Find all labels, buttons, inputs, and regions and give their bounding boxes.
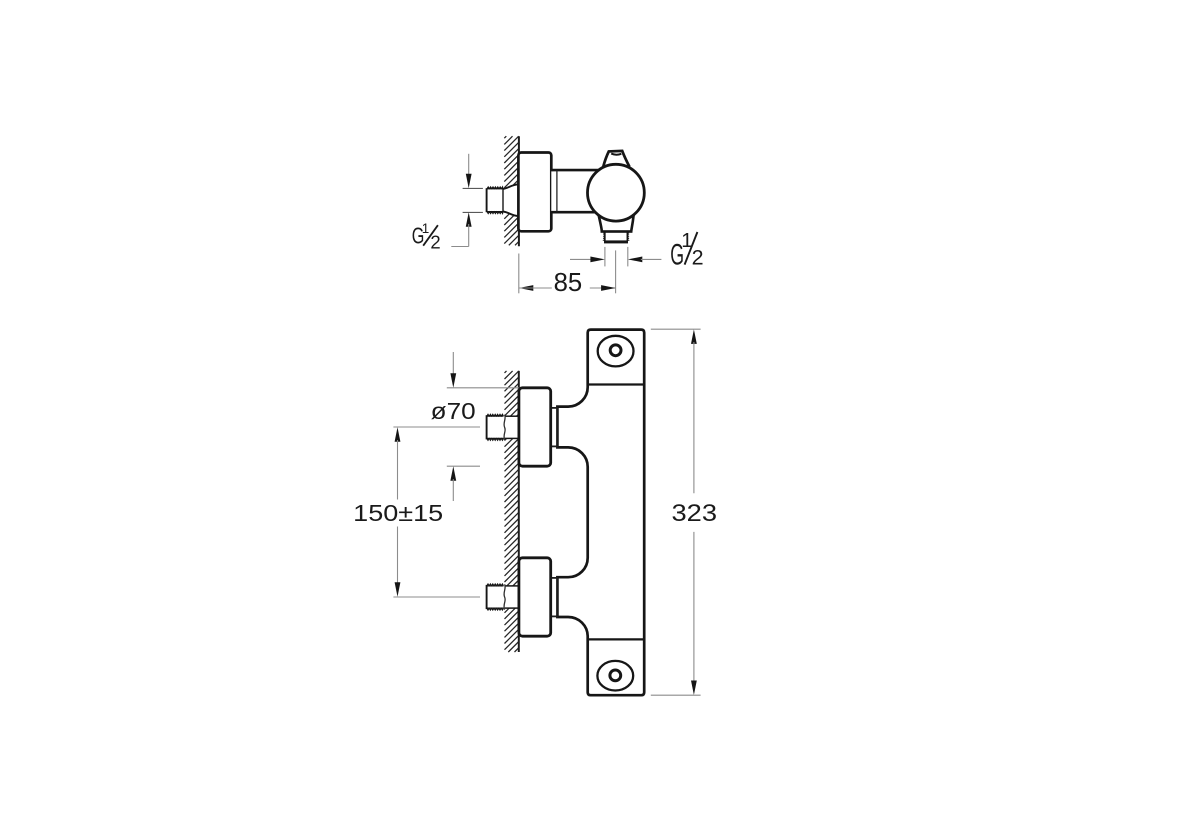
label G1/2 right xyxy=(670,229,703,272)
threaded nipple (upper) with break line xyxy=(487,414,519,440)
svg-text:150±15: 150±15 xyxy=(353,500,443,526)
wall face line (bottom view) xyxy=(518,371,520,652)
dim: G1/2 right (outlet) xyxy=(570,247,661,267)
svg-text:2: 2 xyxy=(692,245,704,269)
outlet taper below valve xyxy=(599,215,634,231)
svg-text:ø70: ø70 xyxy=(431,398,476,424)
outlet nipple G1/2 xyxy=(604,232,629,244)
dim: dia 70 xyxy=(431,352,519,501)
dim: 85 xyxy=(519,250,616,296)
valve body (circle) xyxy=(588,164,645,221)
label G1/2 left xyxy=(412,221,441,253)
lower mounting hole xyxy=(597,661,633,691)
dim: 323 xyxy=(651,329,717,695)
dim: 150 +/- 15 xyxy=(353,427,480,597)
plate joint lines xyxy=(588,383,644,385)
wall hatch (top view) xyxy=(504,136,519,245)
inlet cone through wall xyxy=(503,184,519,216)
horizontal pipe xyxy=(551,170,605,212)
knob / cap on valve top xyxy=(603,151,629,167)
thermostatic bar body outline xyxy=(557,330,644,696)
wall flange (side view) xyxy=(518,153,551,232)
neck ring (lower) xyxy=(548,578,557,617)
svg-text:85: 85 xyxy=(554,267,583,297)
svg-text:323: 323 xyxy=(672,500,718,527)
threaded nipple (lower) with break line xyxy=(487,584,519,610)
upper mounting hole xyxy=(598,336,634,367)
threaded inlet nipple G1/2 (side view) xyxy=(487,187,504,214)
lower escutcheon xyxy=(519,558,551,636)
dim: G1/2 left (inlet) xyxy=(451,154,483,247)
upper escutcheon xyxy=(519,388,551,466)
svg-text:1: 1 xyxy=(422,221,430,236)
wall face line (top view) xyxy=(518,136,520,246)
neck ring (upper) xyxy=(548,408,557,447)
wall hatch (front/side view) xyxy=(505,371,519,652)
